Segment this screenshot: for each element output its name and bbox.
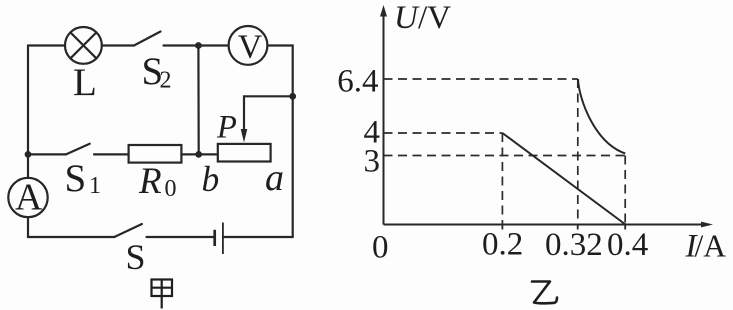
svg-text:3: 3 bbox=[364, 144, 381, 180]
svg-text:b: b bbox=[202, 159, 220, 199]
axis label U/V bbox=[394, 0, 451, 36]
wire voltmeter to right corner and down bbox=[267, 46, 292, 238]
svg-text:A: A bbox=[15, 177, 43, 219]
svg-text:/A: /A bbox=[695, 229, 727, 264]
dashed line I=0.2 bbox=[501, 133, 503, 225]
tick 0.2 bbox=[501, 225, 503, 230]
wire left vertical bbox=[27, 46, 29, 179]
wire S2 to node bbox=[164, 44, 199, 46]
lamp L bbox=[65, 27, 102, 64]
svg-text:R: R bbox=[138, 161, 162, 202]
wire node to voltmeter bbox=[198, 44, 228, 46]
axis label I/A bbox=[685, 229, 727, 265]
tick 0.4 bbox=[624, 225, 626, 230]
node junction top bbox=[195, 42, 202, 49]
slider arrow P bbox=[241, 129, 248, 143]
svg-text:0.2: 0.2 bbox=[482, 227, 523, 263]
svg-text:1: 1 bbox=[89, 173, 101, 199]
label R0 bbox=[138, 161, 177, 202]
svg-text:0: 0 bbox=[165, 176, 177, 202]
svg-text:a: a bbox=[265, 157, 284, 199]
wire top-left to lamp bbox=[28, 44, 65, 46]
switch S1 blade bbox=[66, 144, 90, 155]
svg-text:0.4: 0.4 bbox=[607, 227, 648, 263]
graph x-axis bbox=[384, 224, 705, 226]
svg-text:V: V bbox=[238, 29, 263, 66]
curve lamp U-I bbox=[578, 79, 625, 154]
dashed line U=6.4 bbox=[384, 78, 578, 80]
node junction left-middle bbox=[25, 151, 32, 158]
wire middle vertical bbox=[197, 46, 200, 155]
wire lamp to S2 bbox=[102, 44, 134, 46]
wire slider feed bbox=[244, 96, 293, 130]
svg-text:L: L bbox=[73, 61, 97, 104]
svg-text:0: 0 bbox=[372, 230, 389, 266]
svg-text:S: S bbox=[126, 237, 146, 277]
graph y-axis bbox=[383, 13, 385, 225]
dashed line U=4 bbox=[384, 132, 503, 134]
dashed line I=0.32 bbox=[577, 79, 579, 225]
resistor R0 bbox=[129, 145, 182, 163]
ammeter A1 bbox=[8, 177, 47, 219]
svg-text:6.4: 6.4 bbox=[337, 64, 378, 100]
svg-text:/V: /V bbox=[418, 0, 451, 36]
wire S1 to R0 bbox=[94, 153, 129, 155]
svg-text:0.32: 0.32 bbox=[545, 227, 603, 263]
switch S2 blade bbox=[134, 32, 161, 46]
dashed line U=3 bbox=[384, 155, 626, 157]
node junction middle bbox=[195, 151, 202, 158]
svg-text:2: 2 bbox=[160, 68, 172, 94]
switch S blade bbox=[114, 224, 142, 237]
line rheostat U-I bbox=[502, 133, 625, 225]
wire ammeter to bottom bbox=[28, 217, 114, 237]
wire S to battery bbox=[147, 236, 214, 238]
label S1 bbox=[65, 157, 102, 200]
wire middle-left to S1 bbox=[28, 153, 66, 155]
battery cell bbox=[215, 223, 223, 255]
voltmeter U1 bbox=[229, 26, 268, 66]
wire battery to right corner bbox=[223, 236, 293, 238]
node junction right bbox=[289, 93, 296, 100]
svg-text:U: U bbox=[394, 0, 420, 36]
label S2 bbox=[142, 50, 172, 94]
rheostat (slide resistor) bbox=[218, 144, 271, 162]
label yi (乙) bbox=[532, 282, 557, 304]
dashed line I=0.4 bbox=[624, 156, 626, 225]
svg-text:S: S bbox=[65, 157, 87, 200]
svg-text:P: P bbox=[216, 110, 237, 146]
wire R0 to rheostat bbox=[181, 153, 217, 155]
label jia (甲) bbox=[152, 280, 173, 309]
tick 0.32 bbox=[577, 225, 579, 230]
